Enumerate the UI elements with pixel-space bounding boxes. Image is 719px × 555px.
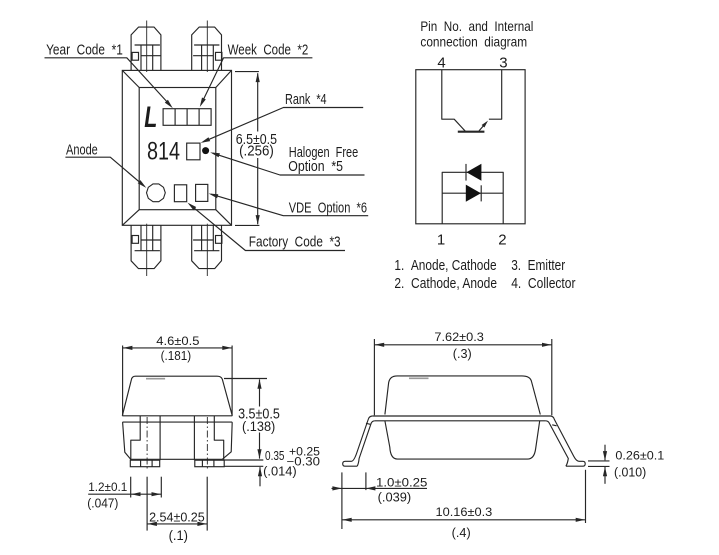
svg-text:0.35: 0.35 [265,448,285,463]
svg-text:connection diagram: connection diagram [420,35,527,50]
svg-text:3. Emitter: 3. Emitter [511,258,565,274]
svg-text:Anode: Anode [66,143,98,159]
svg-text:1.2±0.1: 1.2±0.1 [88,480,127,494]
svg-text:1: 1 [437,231,445,248]
svg-text:(.014): (.014) [263,464,297,479]
svg-text:(.256): (.256) [239,144,274,160]
svg-text:2. Cathode, Anode: 2. Cathode, Anode [394,276,497,292]
svg-text:0.26±0.1: 0.26±0.1 [615,449,664,463]
svg-text:1.0±0.25: 1.0±0.25 [376,475,428,489]
svg-text:4.6±0.5: 4.6±0.5 [156,334,199,348]
svg-text:Year Code *1: Year Code *1 [46,43,123,59]
svg-text:2: 2 [498,231,506,248]
svg-text:VDE Option *6: VDE Option *6 [289,200,367,216]
svg-text:Pin No. and Internal: Pin No. and Internal [420,19,533,34]
svg-text:(.047): (.047) [87,496,118,510]
svg-text:(.181): (.181) [161,349,192,363]
svg-text:10.16±0.3: 10.16±0.3 [436,505,493,519]
svg-text:814: 814 [147,138,180,166]
svg-text:2.54±0.25: 2.54±0.25 [149,509,205,524]
svg-text:(.039): (.039) [378,491,412,505]
svg-text:(.138): (.138) [242,418,275,434]
svg-text:L: L [144,101,157,134]
svg-text:(.3): (.3) [453,347,472,361]
svg-text:Factory Code *3: Factory Code *3 [249,235,341,251]
svg-text:Option *5: Option *5 [288,159,343,175]
svg-text:3: 3 [499,55,507,72]
svg-text:1. Anode, Cathode: 1. Anode, Cathode [394,258,496,274]
svg-text:Rank *4: Rank *4 [285,92,327,108]
svg-text:7.62±0.3: 7.62±0.3 [434,330,484,344]
svg-text:(.1): (.1) [169,528,188,543]
svg-text:(.4): (.4) [452,526,471,540]
svg-text:Week Code *2: Week Code *2 [228,43,309,59]
svg-text:4. Collector: 4. Collector [511,276,575,292]
svg-text:(.010): (.010) [614,465,646,479]
svg-text:4: 4 [437,55,445,72]
